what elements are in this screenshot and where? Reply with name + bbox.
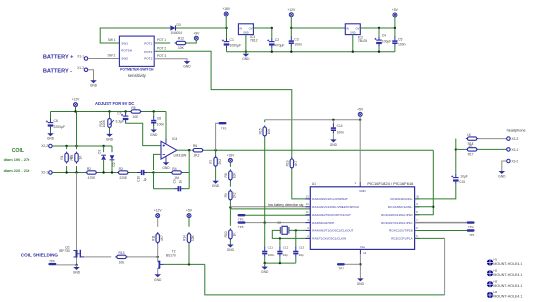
- wire rail to C8 and opamp supply: [142, 111, 166, 113]
- capacitor C10 1u: [130, 172, 138, 174]
- wire output to feedback: [188, 150, 190, 189]
- wire row R2-R3: [98, 172, 117, 174]
- svg-text:C14: C14: [337, 124, 343, 128]
- svg-text:100K: 100K: [102, 119, 106, 127]
- svg-text:4K7: 4K7: [294, 160, 298, 166]
- svg-text:R10: R10: [224, 231, 228, 237]
- svg-text:+18V: +18V: [227, 154, 236, 158]
- svg-text:COIL SHIELDING: COIL SHIELDING: [21, 252, 59, 257]
- svg-text:PIC16F1824 / PIC16F616: PIC16F1824 / PIC16F616: [367, 181, 414, 186]
- wire opamp output: [177, 149, 191, 151]
- resistor R18 1K: [466, 137, 479, 140]
- capacitor C3 100n: [290, 28, 292, 37]
- capacitor C9 parallel: [154, 188, 174, 190]
- svg-text:GND: GND: [261, 270, 269, 274]
- wire POT3 to ground: [154, 59, 187, 62]
- svg-text:GND: GND: [162, 166, 170, 170]
- svg-text:C5: C5: [398, 38, 402, 42]
- resistor R6 2K2: [192, 149, 205, 152]
- svg-text:22p: 22p: [299, 253, 304, 257]
- wire MCLR column: [264, 137, 266, 222]
- testpoint TP2 output: [219, 122, 227, 124]
- wire Q1 source to ground: [76, 258, 78, 266]
- svg-text:+12V: +12V: [287, 8, 296, 12]
- node rail-D3-IC1: [225, 27, 227, 29]
- ground battery minus: [88, 70, 94, 81]
- wire R11 to T2: [157, 244, 159, 257]
- svg-text:10K: 10K: [178, 46, 185, 50]
- svg-text:POT2: POT2: [144, 50, 152, 54]
- testpoint TP1 pin6: [415, 230, 467, 232]
- svg-text:RC4/C2OUT/P1B: RC4/C2OUT/P1B: [389, 229, 413, 233]
- svg-text:R5: R5: [131, 106, 135, 110]
- testpoint TP7 vss: [337, 263, 345, 265]
- wire POT1 to R12: [154, 42, 170, 44]
- svg-text:+5V: +5V: [186, 209, 193, 213]
- svg-text:100n: 100n: [268, 253, 275, 257]
- wire crystal left to pin2: [272, 230, 310, 238]
- svg-text:H3: H3: [493, 279, 497, 283]
- svg-text:X2-2: X2-2: [41, 144, 48, 148]
- svg-text:C15: C15: [459, 180, 465, 184]
- svg-text:Q2: Q2: [277, 220, 281, 224]
- wire T2 emitter to ground: [157, 269, 159, 275]
- wire crystal right to pin3: [289, 229, 310, 231]
- svg-text:COIL: COIL: [12, 148, 25, 154]
- mount hole H2: [487, 270, 493, 276]
- ground C8: [153, 126, 155, 130]
- pin 11 RA2: [306, 214, 311, 216]
- svg-text:H2: H2: [493, 269, 497, 273]
- svg-text:ADJUST FOR 9V DC: ADJUST FOR 9V DC: [95, 101, 134, 106]
- pin 5 RC5: [415, 237, 420, 239]
- wire R18 to X3-3: [478, 138, 506, 140]
- svg-text:R3: R3: [119, 167, 123, 171]
- svg-text:SW 2: SW 2: [108, 54, 116, 58]
- svg-text:10K: 10K: [267, 128, 271, 135]
- svg-text:VDD: VDD: [359, 189, 366, 193]
- wire opamp vplus: [165, 112, 167, 144]
- regulator IC2 78L05: [345, 24, 360, 35]
- svg-text:POTMETER-SWITCH: POTMETER-SWITCH: [120, 67, 154, 71]
- svg-text:TP5: TP5: [238, 225, 244, 229]
- ground POT3: [185, 61, 190, 63]
- svg-text:C9: C9: [173, 179, 177, 183]
- ground opamp: [164, 163, 169, 165]
- svg-text:RC0/AN4/C2IN+: RC0/AN4/C2IN+: [391, 197, 413, 201]
- svg-text:C11: C11: [268, 245, 274, 249]
- pin 8 RC2: [415, 214, 420, 216]
- op-amp IC4 LM318N: [161, 139, 177, 163]
- svg-text:+5V: +5V: [357, 108, 364, 112]
- svg-text:GND: GND: [212, 184, 220, 188]
- svg-text:GND: GND: [330, 143, 338, 147]
- svg-text:R1: R1: [60, 155, 64, 159]
- svg-text:TP4: TP4: [468, 225, 474, 229]
- resistor R8 10K: [229, 163, 231, 167]
- mount hole H1: [487, 259, 493, 265]
- ground X3-2: [502, 161, 507, 171]
- svg-text:Vss: Vss: [360, 245, 366, 249]
- svg-text:RC2/AN6/C12IN2-/P1D: RC2/AN6/C12IN2-/P1D: [381, 213, 413, 217]
- testpoint TP3 pin11: [238, 214, 246, 216]
- svg-text:R16: R16: [70, 154, 74, 160]
- svg-text:GND: GND: [243, 32, 249, 35]
- pin 12 RA1: [306, 206, 311, 208]
- pin 3 RA4: [306, 230, 311, 232]
- connector X3-2: [507, 159, 511, 163]
- wire output line long: [204, 149, 433, 151]
- wire C15 to headphone node: [455, 149, 457, 174]
- svg-text:1µ: 1µ: [143, 178, 147, 182]
- svg-text:C2: C2: [275, 38, 279, 42]
- svg-text:R9: R9: [224, 193, 228, 197]
- resistor R5 10E: [130, 110, 143, 113]
- svg-text:220E: 220E: [119, 176, 128, 180]
- wire VSS down: [359, 249, 361, 254]
- svg-text:C8: C8: [157, 116, 161, 120]
- diode D3 1N4004: [170, 25, 175, 30]
- svg-text:TP6: TP6: [49, 259, 55, 263]
- svg-text:2K2: 2K2: [194, 154, 200, 158]
- capacitor C15 10uF: [451, 174, 458, 184]
- svg-text:R4: R4: [172, 167, 176, 171]
- resistor R16 vertical: [76, 146, 78, 149]
- wire pin10 up through C15: [415, 184, 456, 199]
- resistor R17s pin13 series: [291, 154, 293, 158]
- svg-text:GND: GND: [73, 271, 81, 275]
- svg-text:C4: C4: [382, 33, 386, 37]
- supply +12V top: [289, 13, 293, 17]
- svg-text:MOUNT-HOLE4.1: MOUNT-HOLE4.1: [493, 273, 522, 277]
- supply +18V: [224, 12, 228, 16]
- svg-text:78L05: 78L05: [358, 39, 368, 43]
- ground RV1: [109, 127, 111, 134]
- svg-text:R11: R11: [151, 235, 155, 241]
- wire Q1 gate to R13: [84, 256, 111, 258]
- wire headphone node up: [455, 139, 457, 150]
- wire R14 down: [188, 244, 190, 264]
- svg-text:1n: 1n: [179, 180, 183, 184]
- pin 6 RC4: [415, 230, 420, 232]
- mount hole H4: [487, 292, 493, 298]
- svg-text:C6: C6: [54, 119, 58, 123]
- mount hole H3: [487, 281, 493, 287]
- svg-text:POT 3: POT 3: [157, 54, 166, 58]
- wire VDD column: [359, 120, 361, 182]
- svg-text:MOUNT-HOLE4.1: MOUNT-HOLE4.1: [493, 262, 522, 266]
- svg-text:MOUNT-HOLE4.1: MOUNT-HOLE4.1: [493, 284, 522, 288]
- svg-text:GND: GND: [498, 175, 506, 179]
- wire +battery rail from switch to regulator: [100, 28, 170, 43]
- mcu U1 PIC16F1824: [310, 187, 414, 250]
- svg-text:H4: H4: [493, 290, 497, 294]
- svg-text:10K: 10K: [233, 172, 237, 179]
- svg-text:RA0/AN0/C1IN+/ICSPDAT: RA0/AN0/C1IN+/ICSPDAT: [312, 197, 348, 201]
- svg-text:7812: 7812: [250, 39, 258, 43]
- wire R17 to X3-1: [478, 148, 506, 150]
- svg-text:GND: GND: [227, 248, 235, 252]
- capacitor C7 3.3uF: [125, 112, 127, 114]
- regulator IC1 7812: [238, 24, 253, 35]
- svg-text:C12: C12: [283, 245, 289, 249]
- svg-text:C7: C7: [117, 112, 121, 116]
- svg-text:X3-2: X3-2: [512, 159, 519, 163]
- wire C10 to minus node: [147, 172, 172, 174]
- svg-text:TP7: TP7: [338, 267, 344, 271]
- capacitor C1 1000uF: [226, 28, 228, 38]
- svg-text:OV: OV: [356, 26, 360, 30]
- svg-text:MOUNT-HOLE4.1: MOUNT-HOLE4.1: [493, 295, 522, 299]
- ground IC1: [245, 35, 247, 52]
- pin 4 RA3: [306, 222, 311, 224]
- wire +5V rail mid: [265, 119, 361, 121]
- wire T2 gate to R14 node: [164, 263, 205, 265]
- wire R12 to +9V: [187, 41, 196, 43]
- svg-text:2200µF: 2200µF: [54, 125, 66, 129]
- svg-text:2K2: 2K2: [233, 192, 237, 198]
- wire IC2 out: [360, 27, 395, 29]
- wire battery plus to SW2: [88, 58, 120, 60]
- wire rail to IC2: [291, 27, 345, 29]
- svg-text:headphone: headphone: [507, 129, 526, 133]
- svg-text:GND: GND: [106, 137, 114, 141]
- wire MCLR to C11: [264, 223, 266, 248]
- svg-text:diam 220 - 21t: diam 220 - 21t: [4, 168, 30, 173]
- supply +9V: [194, 36, 198, 40]
- svg-text:RA2/AN2/T0CKI/INT/C1OUT: RA2/AN2/T0CKI/INT/C1OUT: [312, 213, 351, 217]
- svg-text:R2: R2: [87, 167, 91, 171]
- supply +12V left: [74, 103, 78, 107]
- trimmer RV1 100K: [109, 112, 111, 119]
- wire R13 to T2: [128, 256, 158, 258]
- capacitor C12 22p: [279, 238, 281, 247]
- wire pin9: [415, 206, 434, 208]
- pin 13 RA0: [306, 198, 311, 200]
- resistor R12 10K: [175, 41, 188, 44]
- wire pin5 to bottom: [415, 237, 445, 239]
- resistor R10 1K to ground: [229, 208, 231, 226]
- svg-text:GND: GND: [183, 65, 191, 69]
- svg-text:H1: H1: [493, 258, 497, 262]
- svg-text:10E: 10E: [133, 115, 140, 119]
- svg-text:SW 1: SW 1: [108, 38, 116, 42]
- wire R19 to pin13: [292, 169, 311, 199]
- wire C7 to opamp plus input: [126, 122, 161, 145]
- wire caps ground row: [264, 257, 266, 263]
- gnd rail top: [227, 51, 395, 53]
- svg-text:C10: C10: [137, 176, 141, 182]
- svg-text:X1-2: X1-2: [77, 66, 84, 70]
- svg-text:GND: GND: [350, 32, 356, 35]
- svg-text:U1: U1: [312, 182, 316, 186]
- wire TP3 to pin11: [246, 214, 311, 216]
- node battery sense: [229, 201, 231, 207]
- pin 2 RA5: [306, 237, 311, 239]
- svg-text:TP3: TP3: [238, 217, 244, 221]
- switch-pot S1 POTMETER-SWITCH: [119, 36, 154, 66]
- diode D2: [111, 146, 113, 152]
- supply +18V sense: [228, 158, 232, 162]
- wire TP2 down: [216, 123, 219, 150]
- wire TP5 to pin4 MCLR: [246, 222, 311, 224]
- wire POT2 long to PIC: [154, 51, 292, 154]
- supply +12V T2: [156, 214, 160, 218]
- capacitor C8 100n: [153, 112, 155, 117]
- resistor R14 10K: [187, 232, 190, 244]
- resistor R9 2K2: [229, 181, 231, 186]
- svg-text:22p: 22p: [283, 253, 288, 257]
- capacitor C14 100n: [332, 120, 334, 124]
- svg-text:GND: GND: [357, 282, 365, 286]
- wire opamp minus input: [154, 154, 161, 170]
- svg-text:C1: C1: [230, 38, 234, 42]
- svg-text:+18V: +18V: [222, 7, 231, 11]
- svg-text:POT1: POT1: [144, 41, 152, 45]
- svg-text:X3-3: X3-3: [512, 137, 519, 141]
- svg-text:GND: GND: [90, 84, 98, 88]
- wire opamp line down to pins 9-8: [415, 150, 434, 215]
- svg-text:R7: R7: [209, 159, 213, 163]
- svg-text:D1: D1: [97, 150, 101, 154]
- resistor R7 2K2 to ground: [215, 150, 217, 157]
- svg-text:IC4: IC4: [172, 137, 177, 141]
- ground VSS: [358, 279, 363, 281]
- svg-text:C13: C13: [299, 245, 305, 249]
- resistor R13 10E: [115, 255, 128, 258]
- wire coil row to Q1 drain: [76, 173, 78, 247]
- svg-text:diam 190 - 27t: diam 190 - 27t: [4, 157, 30, 162]
- capacitor C11 100n: [262, 247, 267, 257]
- resistor R1 vertical: [66, 146, 68, 149]
- diode D1: [103, 146, 105, 152]
- svg-text:POT 2: POT 2: [157, 46, 166, 50]
- svg-text:SW2: SW2: [121, 57, 128, 61]
- svg-text:100n: 100n: [294, 43, 302, 47]
- resistor R3 220E: [117, 171, 130, 174]
- svg-text:sensitivity: sensitivity: [128, 73, 147, 78]
- capacitor C6 2200uF: [50, 112, 52, 120]
- resistor R2 470E: [85, 171, 98, 174]
- svg-text:GND: GND: [242, 57, 250, 61]
- svg-text:+12V: +12V: [154, 209, 163, 213]
- svg-text:X1-1: X1-1: [77, 55, 84, 59]
- svg-text:RC3/AN7/C12IN3-/P1C: RC3/AN7/C12IN3-/P1C: [381, 221, 413, 225]
- svg-text:3.3µF: 3.3µF: [116, 120, 125, 124]
- wire IC1 in/out: [253, 27, 271, 29]
- svg-text:R6: R6: [193, 144, 197, 148]
- svg-text:R8: R8: [224, 173, 228, 177]
- svg-text:BATTERY +: BATTERY +: [43, 54, 74, 60]
- svg-text:GND: GND: [47, 137, 55, 141]
- svg-text:RA3/MCLR/VPP: RA3/MCLR/VPP: [312, 221, 334, 225]
- supply +5V mid: [358, 112, 362, 116]
- svg-text:10K: 10K: [191, 234, 195, 241]
- connector X3-3: [507, 137, 511, 141]
- svg-text:1000µF: 1000µF: [230, 44, 242, 48]
- svg-text:RA4/AN3/T1G/OSC2/CLKOUT: RA4/AN3/T1G/OSC2/CLKOUT: [312, 229, 353, 233]
- svg-text:GND: GND: [154, 278, 162, 282]
- ground IC2 pin: [352, 35, 354, 52]
- wire sense to pin12: [230, 206, 310, 208]
- wire bottom to PIC pin5: [444, 238, 446, 295]
- resistor R11 4K7: [156, 232, 159, 244]
- svg-text:+9V: +9V: [193, 31, 200, 35]
- svg-text:100µF: 100µF: [382, 39, 391, 43]
- svg-text:4K7: 4K7: [160, 235, 164, 241]
- svg-text:X2-1: X2-1: [41, 171, 48, 175]
- pin 7 RC3: [415, 222, 420, 224]
- wire coil top row: [52, 145, 112, 147]
- svg-text:IN: IN: [346, 26, 349, 30]
- svg-text:+12V: +12V: [72, 98, 81, 102]
- svg-text:IN: IN: [239, 26, 242, 30]
- capacitor C4 100uF: [378, 27, 380, 29]
- svg-text:100n: 100n: [337, 130, 345, 134]
- capacitor C5 100n: [394, 28, 396, 37]
- svg-text:2K2: 2K2: [218, 159, 222, 165]
- svg-text:+5V: +5V: [392, 8, 399, 12]
- pin 10 RC0: [415, 198, 420, 200]
- svg-text:C3: C3: [294, 38, 298, 42]
- svg-text:RA5/T1CKI/OSC1/CLKIN: RA5/T1CKI/OSC1/CLKIN: [312, 237, 346, 241]
- svg-text:POT 1: POT 1: [157, 38, 166, 42]
- wire coil bottom row: [52, 172, 85, 174]
- svg-text:POTSH: POTSH: [121, 49, 132, 53]
- supply +5V top: [393, 13, 397, 17]
- wire PWM long bottom: [205, 264, 445, 295]
- svg-text:BS170: BS170: [166, 253, 176, 257]
- ground caps: [264, 263, 266, 267]
- svg-text:100n: 100n: [157, 122, 165, 126]
- pin 9 RC1: [415, 206, 420, 208]
- svg-text:RC5/CCP1/P1A: RC5/CCP1/P1A: [391, 237, 412, 241]
- svg-text:R15: R15: [258, 128, 262, 134]
- resistor R4 1M: [154, 172, 168, 174]
- svg-text:TP2: TP2: [221, 126, 227, 130]
- testpoint TP5 pin4: [238, 221, 246, 223]
- svg-text:470µF: 470µF: [275, 44, 285, 48]
- capacitor C2 470uF: [271, 27, 273, 29]
- svg-text:D3: D3: [177, 23, 181, 27]
- svg-text:R17: R17: [468, 153, 474, 157]
- svg-text:low battery detection sig: low battery detection sig: [268, 203, 304, 207]
- wire feedback node down: [153, 173, 155, 189]
- svg-text:RC1/AN5/C12IN1-: RC1/AN5/C12IN1-: [388, 205, 413, 209]
- svg-text:R13: R13: [118, 251, 124, 255]
- svg-text:TP1: TP1: [469, 233, 475, 237]
- svg-text:470E: 470E: [88, 176, 97, 180]
- svg-text:R19: R19: [285, 160, 289, 166]
- wire 12v to coil row: [76, 112, 78, 147]
- testpoint TP4 pin7: [415, 222, 467, 224]
- ground C6: [48, 134, 53, 136]
- svg-text:R12: R12: [178, 37, 184, 41]
- svg-text:IRF740: IRF740: [59, 249, 70, 253]
- svg-text:BATTERY -: BATTERY -: [43, 69, 72, 75]
- svg-text:100n: 100n: [398, 43, 406, 47]
- resistor R17 1K: [456, 148, 466, 150]
- rail 12V horizontal: [51, 111, 132, 113]
- ground C14: [332, 133, 334, 140]
- supply +5V T2: [187, 214, 191, 218]
- svg-text:10E: 10E: [119, 260, 126, 264]
- svg-text:1N4004: 1N4004: [171, 31, 183, 35]
- svg-text:10µF: 10µF: [460, 174, 467, 178]
- svg-text:RA1/AN1/C12IN0-/VREF/ICSPCLK: RA1/AN1/C12IN0-/VREF/ICSPCLK: [312, 205, 359, 209]
- svg-text:GND: GND: [150, 133, 158, 137]
- capacitor C13 22p: [295, 229, 297, 247]
